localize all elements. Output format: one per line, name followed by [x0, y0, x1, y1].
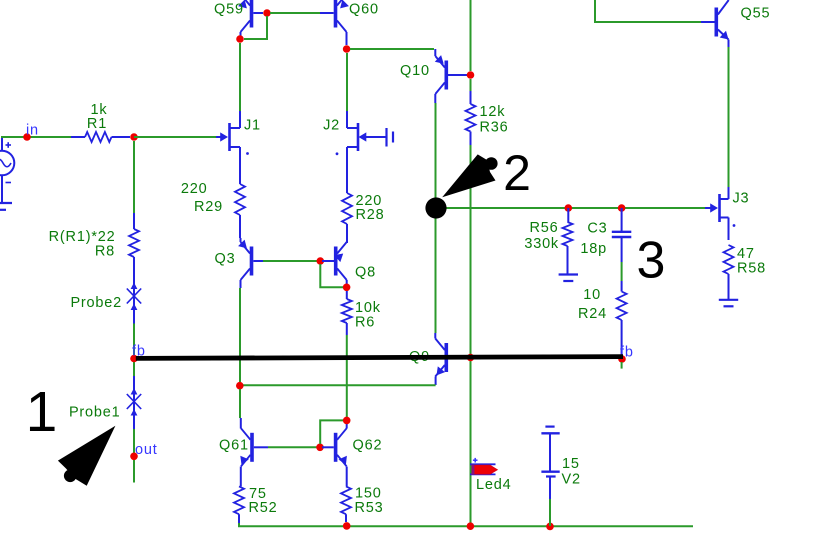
node Q59 base — [263, 9, 271, 17]
wire Q59 base-collector tie — [244, 16, 267, 39]
annotation node circle 2 — [425, 197, 446, 218]
wire Q8 base-collector tie — [320, 264, 343, 287]
resistor R6 10k — [342, 291, 381, 335]
node rail/V2 — [546, 523, 554, 531]
resistor R56 330k — [524, 208, 572, 275]
svg-text:330k: 330k — [524, 236, 559, 252]
JFET J2 — [323, 111, 393, 170]
transistor Q60 — [320, 0, 379, 45]
wire out column — [133, 429, 135, 483]
resistor R36 12k — [466, 79, 509, 145]
wire Q61 collector column — [239, 389, 241, 418]
node Q3-collector / Q61 — [236, 382, 244, 390]
wire Q10 collector column — [435, 103, 437, 333]
svg-text:Q62: Q62 — [353, 438, 383, 454]
wire Q61 base row — [268, 446, 317, 448]
wire stub below fb — [621, 362, 623, 369]
ground (R58) — [719, 300, 738, 307]
svg-text:3: 3 — [637, 232, 666, 290]
resistor R29 220 — [181, 170, 245, 238]
wire top rail to Q10 — [470, 0, 472, 71]
svg-text:R28: R28 — [356, 207, 385, 223]
wire Q60 to Q10 emitter — [350, 48, 434, 50]
svg-text:Probe2: Probe2 — [70, 295, 122, 311]
node in — [23, 123, 39, 141]
transistor Q3 — [215, 238, 264, 288]
svg-text:12k: 12k — [480, 104, 506, 120]
node Q60 collector — [343, 45, 351, 53]
svg-text:R24: R24 — [578, 306, 607, 322]
wire Q55 emitter to J3 drain — [728, 47, 730, 187]
svg-text:J2: J2 — [323, 118, 340, 134]
annotation thick fb line — [136, 357, 623, 359]
voltage source V2 15 — [541, 427, 580, 526]
svg-text:R6: R6 — [355, 315, 375, 331]
node R56 top — [565, 204, 573, 212]
capacitor C3 18p — [580, 208, 631, 262]
svg-text:R1: R1 — [87, 116, 107, 132]
transistor Q55 — [701, 0, 770, 47]
wire to Q60 base — [270, 12, 320, 14]
annotation arrow 1 — [58, 426, 116, 486]
svg-text:R53: R53 — [355, 500, 384, 516]
resistor R1 1k — [71, 102, 130, 142]
wire R6 to Q62 collector node — [346, 335, 348, 417]
JFET J1 — [216, 111, 261, 170]
node Q10 base — [467, 71, 475, 79]
svg-text:Probe1: Probe1 — [69, 405, 121, 421]
wire Q55 base feed — [595, 0, 701, 22]
svg-text:R8: R8 — [95, 244, 115, 260]
svg-text:Q60: Q60 — [349, 2, 379, 18]
node Q8 collector — [343, 284, 351, 292]
node Q3/Q8 base — [317, 257, 325, 265]
wire Q62 collector tie — [320, 420, 344, 444]
svg-text:R56: R56 — [530, 220, 559, 236]
svg-text:R52: R52 — [249, 500, 278, 516]
annotation arrow 2 — [442, 154, 497, 197]
transistor Q10 — [400, 49, 467, 103]
svg-text:Led4: Led4 — [476, 477, 511, 493]
node rail/R53 — [343, 522, 351, 530]
svg-text:Q61: Q61 — [219, 438, 249, 454]
svg-text:in: in — [26, 123, 39, 139]
JFET J3 — [705, 187, 749, 240]
wire fb column — [133, 324, 135, 378]
probe Probe1 — [69, 376, 141, 429]
wire J1 drain — [239, 43, 241, 111]
svg-text:Q10: Q10 — [400, 63, 430, 79]
ground (V1) — [0, 203, 12, 210]
svg-text:Q8: Q8 — [355, 265, 376, 281]
svg-text:R36: R36 — [480, 120, 509, 136]
wire Q3 base row — [263, 260, 317, 262]
transistor Q8 — [322, 242, 376, 284]
node Q62 collector — [343, 417, 351, 425]
node Q61/Q62 base — [316, 444, 324, 452]
wire bottom rail — [239, 523, 693, 526]
wire R36 down through fb row to bottom rail — [470, 145, 472, 526]
resistor R53 150 — [341, 472, 384, 522]
svg-text:220: 220 — [181, 181, 208, 197]
svg-text:10: 10 — [583, 287, 601, 303]
wire in row — [1, 136, 71, 138]
resistor R28 220 — [342, 170, 385, 243]
svg-text:Q3: Q3 — [215, 251, 236, 267]
wire Q3 collector column — [239, 288, 241, 382]
node (R1/R8 junction) — [130, 133, 138, 141]
svg-text:Q59: Q59 — [214, 2, 244, 18]
node C3 top — [618, 204, 626, 212]
resistor R8 R(R1)*22 — [49, 141, 139, 277]
svg-text:R29: R29 — [194, 199, 223, 215]
svg-text:out: out — [135, 442, 158, 458]
svg-text:2: 2 — [503, 145, 531, 201]
probe Probe2 — [70, 271, 141, 324]
svg-text:J3: J3 — [733, 191, 750, 207]
resistor R52 75 — [234, 472, 278, 523]
transistor Q62 — [322, 424, 382, 472]
node fb (right) — [618, 345, 634, 363]
wire to J1 gate — [134, 136, 216, 138]
transistor Q59 — [214, 0, 263, 36]
svg-text:18p: 18p — [580, 241, 607, 257]
svg-text:V2: V2 — [562, 472, 581, 488]
node Q59 collector — [236, 35, 244, 43]
svg-text:1: 1 — [26, 380, 58, 444]
voltage source V1 — [0, 137, 14, 202]
LED Led4 — [470, 458, 511, 493]
node rail/LED column — [467, 522, 475, 530]
svg-text:J1: J1 — [244, 118, 261, 134]
wire comp node row — [436, 207, 705, 209]
wire Q9 emitter row — [240, 384, 436, 386]
svg-text:15: 15 — [562, 456, 580, 472]
transistor Q61 — [219, 418, 268, 472]
svg-text:R58: R58 — [737, 261, 766, 277]
svg-text:Q55: Q55 — [741, 6, 771, 22]
resistor R58 47 — [724, 245, 767, 299]
ground (R56) — [559, 275, 578, 282]
node out — [130, 442, 157, 460]
transistor Q9 — [409, 333, 467, 385]
svg-text:C3: C3 — [587, 221, 607, 237]
node Q9 base — [467, 354, 475, 362]
node fb (left) — [130, 344, 146, 363]
wire J2 drain — [346, 53, 348, 111]
resistor R24 10 — [578, 262, 627, 355]
